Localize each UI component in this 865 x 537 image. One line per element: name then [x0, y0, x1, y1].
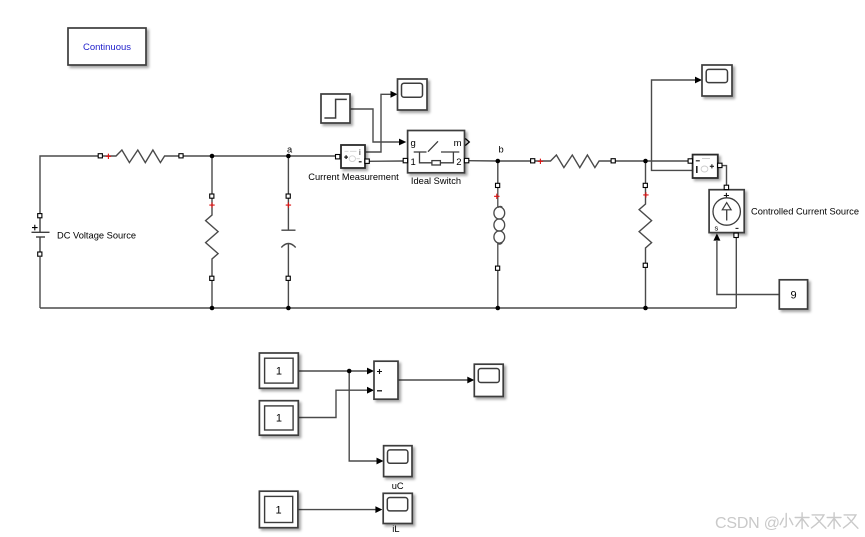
svg-text:b: b	[499, 145, 504, 155]
uC Scope block	[384, 446, 412, 477]
C1 polarity plus mark	[286, 202, 291, 207]
Current Measurement CM2 block	[693, 155, 718, 178]
L1 top port	[496, 183, 500, 187]
CM2 left port	[688, 159, 692, 163]
CCS bottom right port	[734, 233, 738, 237]
wire battery bottom to ground rail	[39, 257, 41, 308]
L1 bottom port	[496, 266, 500, 270]
wire Sum output to Scope3	[398, 379, 469, 381]
capacitor C1	[281, 199, 295, 277]
svg-text:1: 1	[276, 413, 282, 425]
Constant3 block value 1	[259, 491, 298, 528]
R3 right port	[611, 159, 615, 163]
junction J1	[210, 154, 215, 159]
R2 polarity plus mark	[209, 202, 214, 207]
wire C1 bottom to ground rail	[287, 281, 289, 308]
svg-text:uC: uC	[392, 481, 404, 491]
wire R3 right to node J3	[616, 160, 646, 162]
svg-text:iL: iL	[392, 524, 399, 534]
R1 right port	[179, 154, 183, 158]
svg-text:i: i	[359, 148, 361, 157]
wire node J3 down to shunt resistor R4	[645, 161, 647, 183]
L1 polarity plus mark	[494, 194, 499, 199]
svg-text:DC Voltage Source: DC Voltage Source	[57, 231, 136, 241]
wire battery top to R1	[40, 156, 98, 216]
Ideal Switch block	[408, 131, 465, 173]
powergui Continuous block	[68, 28, 146, 65]
Current Measurement right port	[365, 159, 369, 163]
wire R4 bottom to ground rail	[645, 268, 647, 308]
svg-text:Ideal Switch: Ideal Switch	[411, 176, 461, 186]
Step block	[321, 94, 350, 123]
wire node J3 to current measurement CM2 input	[646, 160, 689, 162]
resistor R4 zigzag vertical	[639, 188, 652, 263]
wire CM2 i output up to Scope2	[652, 80, 697, 170]
resistor R3 zigzag	[535, 155, 613, 168]
svg-text:9: 9	[790, 290, 796, 302]
Constant 9 block	[779, 280, 807, 309]
R3 left port	[531, 159, 535, 163]
Current Measurement block	[341, 145, 365, 168]
C1 top port	[286, 194, 290, 198]
wire Current Measurement i output to Scope1	[365, 94, 392, 152]
CCS top port	[724, 185, 728, 189]
wire node A down to capacitor C1	[287, 156, 289, 194]
svg-text:a: a	[287, 145, 293, 155]
R1 left port	[98, 154, 102, 158]
svg-text:Current Measurement: Current Measurement	[308, 172, 399, 182]
wire CCS minus terminal down to ground rail	[735, 238, 737, 308]
arrowhead into iL scope	[375, 506, 382, 513]
arrowhead into Scope1	[391, 91, 398, 98]
arrowhead into CCS s input	[713, 233, 720, 240]
R2 bottom port	[210, 276, 214, 280]
R2 top port	[210, 194, 214, 198]
R1 polarity plus mark	[106, 154, 111, 159]
svg-text:1: 1	[411, 157, 416, 168]
R4 top port	[643, 183, 647, 187]
wire Constant1 to Sum plus input	[298, 370, 368, 372]
ground rail junction under R4	[643, 306, 648, 311]
resistor R2 zigzag vertical	[206, 199, 219, 277]
arrowhead into Scope2	[695, 77, 702, 84]
wire node J1 down to shunt resistor R2	[211, 156, 213, 194]
ground rail junction under L1	[496, 306, 501, 311]
ground rail junction under R2	[210, 306, 215, 311]
wire branch junction to uC scope	[349, 371, 377, 461]
DC Voltage Source bottom port	[38, 252, 42, 256]
DC Voltage Source top port	[38, 214, 42, 218]
svg-text:g: g	[411, 138, 416, 149]
Ideal Switch m output chevron	[465, 139, 469, 146]
wire node A to Current Measurement input	[288, 155, 336, 157]
wire Constant9 to CCS signal input s	[717, 241, 779, 295]
svg-text:1: 1	[276, 505, 282, 517]
wire node B down to inductor L1	[497, 161, 499, 183]
svg-text:Controlled Current Source: Controlled Current Source	[751, 207, 859, 217]
R3 polarity plus mark	[538, 159, 543, 164]
arrowhead into Ideal Switch g	[399, 139, 406, 146]
svg-text:m: m	[454, 138, 462, 149]
wire Current Measurement output to Ideal Switch pin 1	[369, 160, 404, 162]
Constant2 block value 1	[259, 401, 298, 436]
CM2 right port	[718, 163, 722, 167]
arrowhead into uC scope	[377, 458, 384, 465]
Ideal Switch pin2 port	[464, 158, 468, 162]
svg-text:CSDN @: CSDN @	[715, 515, 780, 532]
node B junction	[496, 159, 501, 164]
node A junction	[286, 154, 291, 159]
C1 bottom port	[286, 276, 290, 280]
junction J3	[643, 159, 648, 164]
svg-text:1: 1	[276, 366, 282, 378]
svg-text:s: s	[715, 224, 719, 233]
iL Scope block	[383, 493, 412, 523]
watermark CSDN handle	[715, 513, 858, 532]
wire Constant2 to Sum minus input	[298, 390, 368, 417]
inductor L1	[494, 188, 505, 266]
Ideal Switch pin1 port	[403, 158, 407, 162]
wire Ideal Switch pin 2 to node B	[469, 160, 498, 162]
Controlled Current Source block	[709, 190, 744, 233]
arrowhead into Scope3	[467, 377, 474, 384]
DC Voltage Source battery	[32, 218, 50, 254]
ground rail bottom wire	[40, 307, 736, 309]
wire L1 bottom to ground rail	[497, 271, 499, 308]
DC Voltage Source plus sign	[32, 225, 38, 231]
arrowhead into Sum plus	[367, 368, 374, 375]
wire CM2 output to Controlled Current Source plus terminal	[722, 166, 727, 186]
wire R2 bottom to ground rail	[211, 281, 213, 308]
ground rail junction under C1	[286, 306, 291, 311]
Scope1 block	[398, 79, 428, 110]
Scope2 block	[702, 65, 732, 96]
Scope3 block	[474, 364, 503, 396]
arrowhead into Sum minus	[367, 387, 374, 394]
resistor R1 zigzag	[103, 150, 179, 163]
wire node B to resistor R3	[498, 160, 531, 162]
junction on Constant1 wire	[347, 369, 352, 374]
wire Constant3 to iL scope	[298, 509, 377, 511]
Constant1 block value 1	[259, 353, 298, 388]
Sum block	[374, 361, 398, 399]
svg-text:Continuous: Continuous	[83, 42, 131, 53]
R4 bottom port	[643, 263, 647, 267]
wire Step to Ideal Switch gate g	[350, 109, 399, 142]
Current Measurement left port	[336, 155, 340, 159]
svg-text:2: 2	[456, 157, 461, 168]
wire R1 right to node A	[183, 155, 288, 157]
R4 polarity plus mark	[643, 192, 648, 197]
